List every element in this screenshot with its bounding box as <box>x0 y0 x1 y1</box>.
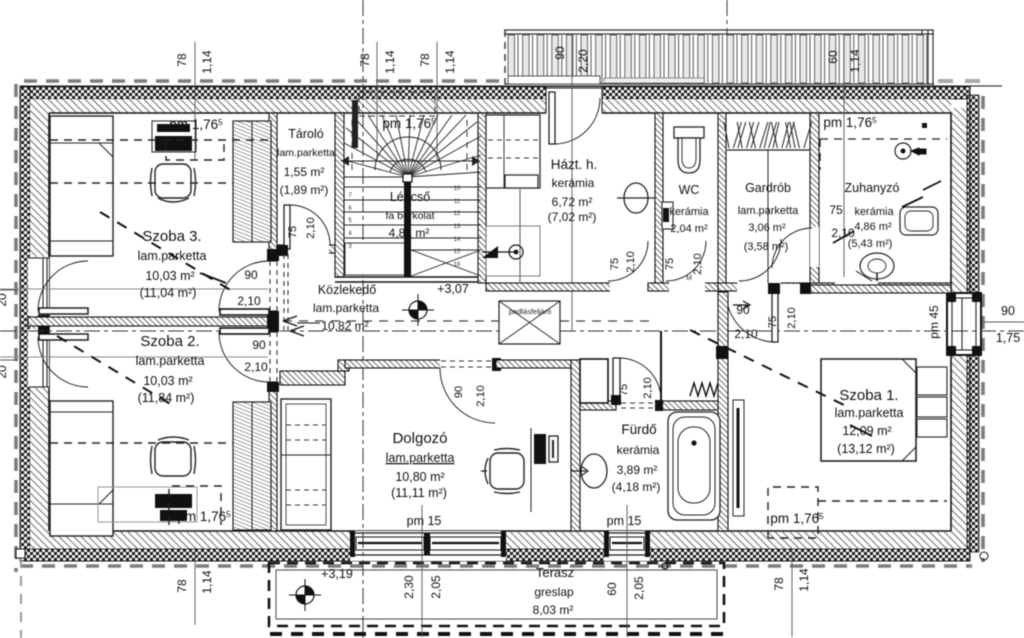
svg-text:+3,07: +3,07 <box>437 282 469 296</box>
svg-text:1,14: 1,14 <box>848 49 862 73</box>
svg-text:lam.parketta: lam.parketta <box>835 406 904 420</box>
Szoba1 door <box>776 284 806 294</box>
bottom-left corner mark <box>16 549 25 558</box>
svg-text:pm 15: pm 15 <box>607 514 642 528</box>
roof slope dashed diagonal Szoba 2 <box>57 336 172 405</box>
stair headroom dashed box <box>359 92 435 116</box>
svg-text:10,82 m²: 10,82 m² <box>321 319 368 333</box>
svg-text:(3,58 m²): (3,58 m²) <box>744 241 789 253</box>
outer wall right: insulation band <box>967 95 979 552</box>
Zuhanyzo door <box>835 282 878 292</box>
stair bottom landing left <box>345 243 407 275</box>
svg-text:14: 14 <box>454 237 461 243</box>
arrow near Szoba1 wall <box>733 301 750 309</box>
wall inner edge lines <box>49 113 951 531</box>
bottom wall window Dolgozo/terrace <box>350 531 506 561</box>
svg-text:lam.parketta: lam.parketta <box>277 147 335 159</box>
svg-text:greslap: greslap <box>534 585 574 599</box>
terrace outline <box>269 563 724 626</box>
svg-text:2,10: 2,10 <box>692 253 704 274</box>
svg-text:78: 78 <box>175 53 189 67</box>
label Szoba 3 <box>138 228 207 300</box>
wall Dolgozo east vertical <box>571 360 580 531</box>
svg-text:2,20: 2,20 <box>576 49 590 73</box>
balcony railing top <box>504 30 934 86</box>
svg-text:kerámia: kerámia <box>617 443 660 457</box>
svg-text:10,80 m²: 10,80 m² <box>395 470 444 484</box>
left edge ticks and 20 labels <box>0 289 18 291</box>
wall Tarolo south <box>277 245 345 253</box>
svg-text:90: 90 <box>252 338 266 352</box>
dim line 78/1,14 left <box>194 42 196 160</box>
washbasin Zuhanyzo <box>900 207 938 235</box>
svg-text:20: 20 <box>0 365 9 379</box>
outer wall top: insulation band <box>20 87 970 99</box>
svg-text:90: 90 <box>1001 304 1015 318</box>
svg-text:2,05: 2,05 <box>429 575 443 599</box>
stair flight left treads <box>344 187 405 250</box>
pm dashed zone Szoba 1 <box>768 487 947 538</box>
svg-text:2,10: 2,10 <box>642 377 654 398</box>
chair Dolgozo <box>490 453 524 489</box>
radiator Szoba 1 <box>733 400 744 516</box>
svg-text:12: 12 <box>454 211 461 217</box>
vertical section dash-dot line <box>362 0 364 638</box>
terrace bottom gravel strip <box>270 632 731 636</box>
pm dashed line Zuhanyzo <box>820 139 947 170</box>
label Furdo <box>612 422 661 494</box>
svg-text:75: 75 <box>829 203 843 217</box>
bed Szoba 3 <box>50 116 113 256</box>
svg-text:(5,43 m²): (5,43 m²) <box>848 238 893 250</box>
svg-text:(11,11 m²): (11,11 m²) <box>391 486 447 500</box>
outer boundary dashed line <box>16 81 983 572</box>
svg-text:4,81 m²: 4,81 m² <box>389 226 430 240</box>
svg-text:60: 60 <box>605 582 619 596</box>
svg-text:Tároló: Tároló <box>288 127 323 141</box>
stair side dashes <box>352 120 467 175</box>
roof slope dashed diagonal Szoba 3 <box>100 212 232 291</box>
wardrobe Dolgozo <box>281 399 331 530</box>
svg-text:+3,19: +3,19 <box>321 567 353 581</box>
svg-text:8,03 m²: 8,03 m² <box>533 603 574 617</box>
door posts on corridor wall <box>267 249 279 392</box>
top-right roof dashes <box>938 79 980 83</box>
svg-text:M: M <box>686 275 692 282</box>
svg-text:2,10: 2,10 <box>237 294 261 308</box>
svg-text:4,86 m²: 4,86 m² <box>854 221 892 233</box>
svg-text:1,55 m²: 1,55 m² <box>284 165 325 179</box>
svg-text:Házt. h.: Házt. h. <box>551 157 598 172</box>
svg-text:kerámia: kerámia <box>552 176 595 190</box>
svg-text:lam.parketta: lam.parketta <box>313 301 379 315</box>
toilet Zuhanyzo <box>860 253 894 279</box>
svg-text:1,14: 1,14 <box>443 50 457 74</box>
bottom wall window Furdo <box>604 531 650 561</box>
wall Szoba3/Szoba2 <box>28 317 277 326</box>
svg-text:10,03 m²: 10,03 m² <box>143 374 192 388</box>
svg-text:(1,89 m²): (1,89 m²) <box>280 183 329 197</box>
svg-text:Gardrób: Gardrób <box>745 181 791 195</box>
attic pull-down symbol <box>482 246 498 258</box>
svg-text:1,75: 1,75 <box>996 331 1020 345</box>
washbasin Furdo <box>581 454 607 488</box>
Dolgozo door opening <box>440 359 493 369</box>
svg-text:78: 78 <box>418 53 432 67</box>
svg-text:2,05: 2,05 <box>632 576 646 600</box>
svg-text:lam.parketta: lam.parketta <box>136 354 205 368</box>
svg-text:2,10: 2,10 <box>625 251 637 272</box>
corridor recess east line <box>660 331 662 401</box>
bathtub <box>668 412 720 520</box>
label Dolgozo <box>386 430 455 500</box>
dashed wall-opening edges <box>270 261 277 382</box>
dim line 78/1,14 mid2 <box>436 42 438 160</box>
stair fan (winders) <box>344 115 481 177</box>
svg-text:lam.parketta: lam.parketta <box>386 451 455 465</box>
door Szoba 3 (from corridor) <box>220 309 269 315</box>
wall WC east / Gardrob west <box>718 113 726 291</box>
svg-text:pm 1,765: pm 1,765 <box>177 509 231 524</box>
wall corridor south step <box>338 360 349 371</box>
svg-text:padlásfeljáró: padlásfeljáró <box>509 307 552 316</box>
svg-text:WC: WC <box>679 183 700 197</box>
svg-text:78: 78 <box>772 577 786 591</box>
degree mark terrace <box>662 563 668 569</box>
svg-text:3,06 m²: 3,06 m² <box>748 222 786 234</box>
wall Dolgozo north <box>345 360 500 368</box>
svg-text:1,14: 1,14 <box>200 570 214 594</box>
wall stairwell east <box>478 113 486 283</box>
svg-text:10,03 m²: 10,03 m² <box>145 269 194 283</box>
dim line 78/1,14 mid <box>376 42 378 160</box>
stair flight right treads <box>411 187 481 250</box>
svg-text:90: 90 <box>453 386 465 398</box>
svg-text:pm 45: pm 45 <box>927 305 941 339</box>
svg-text:pm 15: pm 15 <box>407 514 442 528</box>
svg-text:kerámia: kerámia <box>854 206 894 218</box>
svg-text:1,14: 1,14 <box>797 568 811 592</box>
Gardrob hanger rail <box>724 122 812 150</box>
desk Szoba 2 <box>98 487 197 522</box>
pm dashed zone Szoba 2 <box>50 443 233 525</box>
outer wall left: insulation band <box>20 87 30 561</box>
svg-text:Szoba 3.: Szoba 3. <box>142 228 201 245</box>
label WC <box>669 183 709 235</box>
svg-text:13: 13 <box>454 224 461 230</box>
chair Szoba 3 <box>155 164 191 198</box>
svg-text:2,10: 2,10 <box>734 327 758 341</box>
svg-text:1,14: 1,14 <box>383 50 397 74</box>
Hazt.h partition line <box>519 188 521 283</box>
wall vertical below S2 door <box>269 382 277 531</box>
door head line Szoba2 <box>0 356 268 358</box>
bedside shelves Szoba 1 <box>917 367 947 395</box>
svg-text:2,10: 2,10 <box>475 385 487 406</box>
outer wall top: masonry hatch <box>30 99 951 113</box>
svg-text:Közlekedő: Közlekedő <box>318 283 376 297</box>
top vertical dash-dot stub <box>726 0 728 36</box>
bed Szoba 1 <box>821 359 916 461</box>
svg-text:(4,18 m²): (4,18 m²) <box>612 480 661 494</box>
bottom dim 78/1,14 right <box>791 548 793 637</box>
wardrobe Szoba 3 <box>233 121 271 242</box>
radiator Furdo <box>690 383 718 396</box>
label Gardrob <box>738 181 799 253</box>
Gardrob/Zuhanyzo door in wall <box>810 227 819 267</box>
wall Gardrob east / Zuhanyzo west <box>810 113 819 291</box>
svg-text:fa burkolat: fa burkolat <box>385 210 434 222</box>
svg-text:lam.parketta: lam.parketta <box>138 249 207 263</box>
svg-text:75: 75 <box>609 258 621 270</box>
wall Hazt.h south <box>486 283 612 291</box>
svg-text:Dolgozó: Dolgozó <box>392 430 447 447</box>
cabinet niche <box>580 359 608 403</box>
left wall window opening (Szoba 3) <box>28 257 49 316</box>
label Szoba 1 <box>835 387 904 456</box>
wall Zuhanyzo south <box>810 283 951 291</box>
label Hazt.h <box>548 157 598 224</box>
svg-text:2,04 m²: 2,04 m² <box>670 223 708 235</box>
outer wall bottom: masonry hatch <box>30 532 951 549</box>
outer wall right: masonry hatch <box>951 108 967 549</box>
door leaf left Szoba 3 <box>39 308 88 314</box>
Hazt.h door <box>610 282 648 292</box>
svg-text:90: 90 <box>553 46 567 60</box>
door leaf left Szoba 2 <box>39 334 88 340</box>
svg-text:Lépcső: Lépcső <box>390 190 430 204</box>
svg-text:kerámia: kerámia <box>669 206 709 218</box>
bottom-right corner circle <box>980 552 988 560</box>
door Szoba 2 (from corridor) <box>220 328 269 334</box>
svg-text:(11,84 m²): (11,84 m²) <box>138 391 195 405</box>
stair center stringer <box>404 179 411 277</box>
svg-text:Terasz: Terasz <box>536 565 574 580</box>
svg-text:75: 75 <box>664 258 676 270</box>
wall Szoba1 north <box>806 285 951 293</box>
svg-text:16: 16 <box>454 262 461 268</box>
desk Szoba 3 <box>152 121 196 152</box>
left wall mullion block <box>38 315 49 334</box>
shower head <box>895 143 911 159</box>
Furdo door <box>613 358 620 402</box>
corridor dashed line <box>283 320 499 322</box>
right wall window <box>946 292 982 356</box>
desk Dolgozo <box>530 428 532 512</box>
svg-text:(13,12 m²): (13,12 m²) <box>837 442 895 456</box>
wall Furdo north west stub <box>580 401 616 410</box>
svg-text:2,10: 2,10 <box>305 217 317 238</box>
wall WC south <box>648 283 718 291</box>
bottom dim 60/2,05 Furdo <box>626 505 628 637</box>
wall Szoba1 west <box>718 292 728 531</box>
bottom dim 2,30/2,05 Dolgozo <box>421 505 423 637</box>
svg-text:20: 20 <box>0 293 9 307</box>
svg-text:Zuhanyzó: Zuhanyzó <box>845 181 900 195</box>
outer wall left: masonry hatch <box>30 99 49 532</box>
svg-text:60: 60 <box>826 50 840 64</box>
right edge dim 90 / 1,75 <box>982 321 1024 323</box>
wall vertical between doors <box>269 311 277 332</box>
svg-text:75: 75 <box>287 226 299 238</box>
WC door <box>669 282 705 292</box>
slope ticks Zuhanyzo <box>833 181 941 243</box>
flue block Hazt.h <box>486 115 540 188</box>
svg-text:15: 15 <box>454 249 461 255</box>
svg-text:2,30: 2,30 <box>402 575 416 599</box>
balcony dimension line 60/1,14 <box>843 34 845 277</box>
bottom dim 78/1,14 left <box>194 548 196 625</box>
wardrobe Szoba 2 <box>233 402 271 530</box>
chair Szoba 2 <box>155 442 191 476</box>
level marker +3,07 <box>409 301 427 319</box>
padlasfeljaro attic hatch <box>499 301 560 344</box>
door head line Szoba3 <box>0 288 268 290</box>
svg-text:pm 1,765: pm 1,765 <box>169 117 223 132</box>
svg-text:78: 78 <box>358 53 372 67</box>
label Terasz <box>533 565 574 617</box>
svg-text:11: 11 <box>454 199 461 205</box>
svg-text:6,72 m²: 6,72 m² <box>552 195 593 209</box>
svg-text:1,14: 1,14 <box>200 50 214 74</box>
svg-text:10: 10 <box>454 186 461 192</box>
svg-text:(7,02 m²): (7,02 m²) <box>548 210 597 224</box>
washing machine symbol Hazt.h <box>624 183 648 213</box>
balcony door panel and swing <box>549 92 555 144</box>
balcony threshold strip <box>508 76 600 84</box>
stair handrail arcs <box>390 159 426 172</box>
balcony balusters <box>508 35 927 83</box>
wall Hazt.h east / WC west <box>655 113 663 291</box>
stair bottom cross box right <box>411 250 481 276</box>
svg-text:pm 1,765: pm 1,765 <box>770 511 824 526</box>
svg-text:Fürdő: Fürdő <box>621 422 656 437</box>
roof slope dashed diagonal Szoba 1 <box>690 330 846 406</box>
svg-text:pm 1,765: pm 1,765 <box>823 115 877 130</box>
svg-text:lam.parketta: lam.parketta <box>738 205 799 217</box>
svg-text:75: 75 <box>618 384 630 396</box>
bed Szoba 2 <box>50 401 113 536</box>
Gardrob door <box>737 282 781 292</box>
balcony door opening in top wall <box>546 87 602 114</box>
label Tarolo <box>277 127 335 197</box>
washing machine Hazt.h <box>486 226 540 276</box>
wall corridor south west segment <box>280 371 345 385</box>
pm dashed zone Szoba 3 <box>50 140 269 183</box>
stair step numbers <box>348 186 461 268</box>
stair direction line <box>341 160 480 162</box>
wall Furdo north east <box>659 401 718 410</box>
stairwell bottom edge <box>335 277 484 282</box>
svg-text:90: 90 <box>244 268 258 282</box>
wall stairwell west <box>335 113 344 277</box>
label Szoba 2 <box>136 333 205 405</box>
svg-text:2,10: 2,10 <box>244 360 268 374</box>
level marker +3,19 <box>296 586 314 604</box>
svg-text:3,89 m²: 3,89 m² <box>617 463 658 477</box>
wall Gardrob south <box>718 283 810 291</box>
WC sink <box>662 202 673 229</box>
svg-text:12,09 m²: 12,09 m² <box>842 424 891 438</box>
corridor arrows <box>283 316 304 336</box>
svg-text:78: 78 <box>175 579 189 593</box>
svg-text:(11,04 m²): (11,04 m²) <box>140 286 197 300</box>
label Kozlekedo <box>313 283 379 333</box>
Tarolo door opening <box>284 244 329 254</box>
svg-text:Szoba 2.: Szoba 2. <box>140 333 199 350</box>
outer wall bottom: insulation band <box>20 549 970 561</box>
svg-text:Szoba 1.: Szoba 1. <box>839 387 898 404</box>
svg-text:pm 1,765: pm 1,765 <box>382 116 436 131</box>
svg-text:75: 75 <box>767 316 779 328</box>
wall corridor south east of door <box>496 360 580 368</box>
left wall window opening (Szoba 2) <box>28 329 49 388</box>
toilet WC <box>674 127 704 138</box>
horizontal section dash-dot line <box>0 330 1024 332</box>
wall bedrooms/center vertical <box>269 113 277 261</box>
svg-text:2,10: 2,10 <box>786 307 798 328</box>
balcony dimension line 90/2,20 <box>571 34 573 331</box>
